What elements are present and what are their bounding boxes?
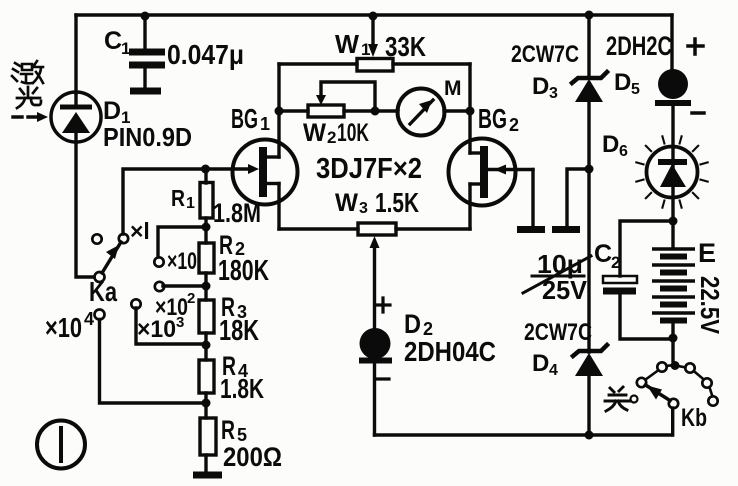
- battery E: [652, 221, 695, 338]
- label 2DH2C: [606, 31, 672, 61]
- label minus D5: [692, 111, 704, 115]
- label W2: [303, 119, 336, 147]
- value 2DH04C: [404, 336, 496, 367]
- svg-text:W: W: [303, 119, 326, 147]
- potentiometer W1: [357, 16, 393, 71]
- label Ka: [89, 276, 117, 307]
- value 22.5V rotated: [695, 276, 725, 335]
- capacitor C2: [603, 276, 672, 339]
- svg-text:D: D: [532, 350, 549, 377]
- svg-text:180K: 180K: [218, 255, 269, 287]
- zener D3: [572, 15, 607, 169]
- ground mid tap: [552, 226, 580, 233]
- label D1: [103, 97, 130, 127]
- svg-text:×10: ×10: [137, 316, 176, 343]
- svg-text:R: R: [171, 185, 185, 211]
- ground below C1: [130, 88, 161, 95]
- ground BG2 gate: [517, 226, 545, 233]
- potentiometer W2: [308, 82, 375, 117]
- svg-text:C: C: [594, 240, 612, 268]
- transistor BG1: [205, 140, 298, 205]
- svg-text:D: D: [103, 97, 121, 125]
- node C1 tap: [141, 12, 150, 21]
- meter M: [398, 89, 445, 136]
- potentiometer W3: [358, 223, 396, 248]
- svg-text:1: 1: [121, 39, 130, 58]
- photocell D2: [359, 328, 392, 435]
- svg-text:3: 3: [359, 200, 368, 217]
- resistor R4: [199, 345, 214, 403]
- wire bridge bottom edge: [279, 227, 470, 230]
- svg-text:4: 4: [549, 362, 558, 379]
- light arrow into D1: [13, 112, 48, 122]
- label off contact circle: [631, 396, 638, 403]
- label R5: [221, 415, 247, 445]
- photodiode D1: [51, 92, 101, 142]
- wire x1 contact up and over to R1 top: [123, 169, 205, 234]
- svg-text:5: 5: [631, 81, 640, 98]
- node battery bottom: [669, 334, 678, 343]
- value 10K: [337, 119, 369, 147]
- label C1: [104, 27, 130, 58]
- node R1-R2: [202, 223, 211, 232]
- label BG2: [478, 103, 519, 135]
- label E: [698, 238, 716, 268]
- svg-text:1: 1: [186, 195, 195, 212]
- transistor BG2: [449, 139, 534, 206]
- svg-text:3DJ7F×2: 3DJ7F×2: [316, 153, 422, 185]
- svg-text:4: 4: [84, 309, 94, 329]
- svg-text:D: D: [614, 69, 631, 96]
- value 200ohm: [223, 442, 282, 472]
- svg-text:1.5K: 1.5K: [375, 187, 419, 218]
- label plus D2: [376, 298, 390, 312]
- label C2: [594, 240, 620, 272]
- label 2CW7C upper: [511, 41, 579, 68]
- node W2 wiper tap: [371, 107, 380, 116]
- capacitor C1: [129, 16, 165, 88]
- svg-text:2DH2C: 2DH2C: [606, 31, 672, 61]
- led D6: [647, 147, 698, 222]
- wire top right drop: [670, 15, 673, 69]
- label x10^3: [137, 314, 184, 343]
- value 1.5K: [375, 187, 419, 218]
- value PIN0.9D: [103, 122, 192, 152]
- svg-text:1.8K: 1.8K: [220, 373, 264, 404]
- wire jog to C2: [620, 221, 673, 276]
- switch contact x1000: [131, 299, 140, 308]
- svg-text:×10: ×10: [167, 248, 197, 275]
- svg-text:22.5V: 22.5V: [695, 276, 725, 335]
- value 18K: [219, 315, 259, 347]
- wire x10 branch: [158, 227, 206, 257]
- label minus D2: [375, 377, 389, 380]
- value 1.8M: [213, 198, 261, 228]
- node R3-R4: [202, 341, 211, 350]
- value 1.8K: [220, 373, 264, 404]
- node D3 top: [585, 11, 594, 20]
- wire bridge right rail: [468, 64, 471, 153]
- label laser (ji guang) hand glyphs: [12, 61, 43, 83]
- svg-text:2DH04C: 2DH04C: [404, 336, 496, 367]
- svg-text:BG: BG: [478, 103, 507, 134]
- svg-text:Kb: Kb: [681, 404, 707, 432]
- wire down to D4: [587, 169, 590, 352]
- value 33K: [385, 31, 426, 62]
- wire bridge middle row: [279, 109, 470, 112]
- label R2: [219, 230, 245, 260]
- label W3: [335, 189, 368, 217]
- svg-text:D: D: [404, 309, 421, 339]
- wire x10000 branch: [100, 320, 207, 404]
- label plus top right: [688, 39, 703, 54]
- svg-text:×10: ×10: [45, 312, 82, 343]
- value 10u 25V fraction: [537, 249, 588, 305]
- svg-text:2: 2: [187, 290, 195, 307]
- switch contact x10000: [95, 310, 105, 320]
- svg-text:2: 2: [327, 128, 336, 147]
- value 180K: [218, 255, 269, 287]
- svg-text:BG: BG: [231, 103, 258, 134]
- svg-text:PIN0.9D: PIN0.9D: [103, 122, 192, 152]
- svg-text:0.047μ: 0.047μ: [167, 39, 244, 70]
- label R1: [171, 185, 195, 212]
- resistor R2: [199, 227, 214, 286]
- wire x1000 branch: [136, 308, 206, 344]
- svg-text:2: 2: [509, 115, 519, 135]
- svg-text:C: C: [104, 27, 122, 55]
- resistor R3: [199, 286, 214, 345]
- switch contact x100: [155, 282, 164, 291]
- label D3: [532, 73, 558, 102]
- wire mid tap to ground: [567, 169, 589, 226]
- svg-text:18K: 18K: [219, 315, 259, 347]
- node left rail middle: [275, 107, 284, 116]
- svg-text:2CW7C: 2CW7C: [511, 41, 579, 68]
- figure number 1: [37, 421, 85, 469]
- label x1: [130, 218, 150, 244]
- node D6 bottom / C2 top: [669, 217, 678, 226]
- svg-text:1: 1: [260, 114, 270, 134]
- wire bottom rail: [375, 433, 673, 436]
- photocell D5: [655, 69, 691, 147]
- wire bridge top edge: [279, 62, 470, 65]
- label R4: [222, 351, 248, 381]
- svg-text:M: M: [444, 77, 462, 100]
- switch Kb: [637, 338, 718, 435]
- resistor R1: [200, 169, 213, 227]
- label D5: [614, 69, 640, 98]
- zener D4: [573, 345, 607, 435]
- label Kb: [681, 404, 707, 432]
- wire x100 branch: [163, 284, 206, 287]
- wire BG2 gate down to ground: [531, 170, 534, 227]
- label D4: [532, 350, 558, 379]
- wire top rail: [76, 13, 672, 16]
- svg-text:2CW7C: 2CW7C: [524, 319, 592, 346]
- node W1 wiper tap on top rail: [369, 12, 378, 21]
- label x10: [167, 248, 197, 275]
- resistor R5: [200, 403, 216, 472]
- value 0.047u: [167, 39, 244, 70]
- label M: [444, 77, 462, 100]
- svg-text:D: D: [602, 131, 619, 158]
- svg-text:×l: ×l: [130, 218, 150, 244]
- svg-text:3: 3: [176, 314, 184, 331]
- node zener mid tap: [585, 165, 594, 174]
- label R3: [221, 292, 247, 322]
- svg-text:33K: 33K: [385, 31, 426, 62]
- node R2-R3: [202, 282, 211, 291]
- svg-text:6: 6: [619, 143, 628, 160]
- svg-text:D: D: [532, 73, 549, 100]
- ground below R5: [193, 472, 222, 479]
- svg-text:200Ω: 200Ω: [223, 442, 282, 472]
- wire left drop from top rail to D1: [74, 15, 77, 93]
- led D6 rays: [636, 136, 707, 207]
- label 2CW7C lower: [524, 319, 592, 346]
- svg-text:E: E: [698, 238, 716, 268]
- label x10^2: [155, 290, 195, 321]
- switch contact x10: [154, 257, 163, 266]
- node D4 bottom: [585, 431, 594, 440]
- label D6: [602, 131, 628, 160]
- svg-text:Ka: Ka: [89, 276, 117, 307]
- svg-text:1: 1: [361, 40, 370, 59]
- svg-text:R: R: [221, 415, 235, 445]
- value 3DJ7Fx2: [316, 153, 422, 185]
- svg-text:W: W: [335, 189, 358, 217]
- node R4-R5: [202, 399, 211, 408]
- svg-text:3: 3: [549, 85, 558, 102]
- label BG1: [231, 103, 270, 134]
- label D2: [404, 309, 433, 339]
- svg-text:10K: 10K: [337, 119, 369, 147]
- svg-text:W: W: [335, 29, 359, 59]
- wire bridge left rail: [277, 64, 280, 157]
- switch Ka: [92, 234, 128, 282]
- wire D1 down to switch Ka wiper: [76, 142, 94, 277]
- label x10^4: [45, 309, 94, 343]
- label W1: [335, 29, 370, 59]
- svg-text:2: 2: [611, 253, 620, 272]
- node R1 top / gate: [201, 165, 210, 174]
- wire D2 column from W3 wiper: [373, 247, 376, 330]
- label off (guan) hand glyph: [605, 387, 630, 411]
- node right rail middle: [466, 107, 475, 116]
